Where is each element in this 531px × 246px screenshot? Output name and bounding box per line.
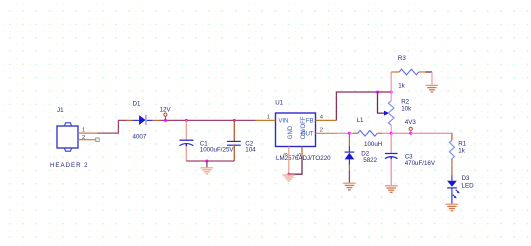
- svg-text:1k: 1k: [458, 148, 465, 155]
- junction at C2 tap: [233, 119, 236, 122]
- J1 pin 2: [78, 139, 95, 141]
- wire bottom rail C1-C2: [186, 160, 234, 162]
- capacitor C1: [180, 140, 194, 146]
- LED D3: [447, 165, 460, 204]
- wire R2 wiper: [378, 92, 385, 113]
- ground (D3): [446, 204, 459, 211]
- junction at R2 bottom / C3: [390, 132, 393, 135]
- svg-text:U1: U1: [275, 100, 283, 107]
- U1 pin 4: [316, 119, 337, 121]
- wire C2 bottom: [233, 145, 235, 161]
- U1 pin 5: [301, 147, 303, 157]
- svg-text:HEADER 2: HEADER 2: [50, 162, 89, 169]
- junction at U1 ground: [287, 173, 290, 176]
- svg-text:1: 1: [82, 128, 85, 134]
- svg-text:L1: L1: [357, 117, 364, 124]
- diode D2: [345, 133, 355, 171]
- svg-text:1: 1: [267, 115, 270, 121]
- svg-text:ON/OFF: ON/OFF: [301, 116, 307, 139]
- regulator U1: [276, 113, 316, 147]
- svg-text:FB: FB: [306, 118, 314, 124]
- wire R3 left vertical: [390, 72, 392, 92]
- wire C1 top: [185, 120, 187, 139]
- svg-text:R3: R3: [398, 55, 406, 62]
- svg-text:4007: 4007: [133, 134, 147, 141]
- power port 4V3: [409, 127, 412, 133]
- wire D1 cathode to U1 VIN (12V rail): [160, 119, 255, 121]
- wire C3 bottom to ground: [390, 159, 392, 185]
- svg-text:J1: J1: [57, 107, 64, 114]
- U1 pin 3: [288, 147, 290, 157]
- wire D2 junction to L1: [349, 132, 357, 134]
- junction at C1 tap: [185, 119, 188, 122]
- wire output rail to 4V3: [391, 132, 411, 134]
- svg-text:1k: 1k: [398, 83, 405, 90]
- junction at D2: [348, 132, 351, 135]
- svg-text:104: 104: [245, 147, 256, 154]
- junction at 12V tap: [164, 119, 167, 122]
- svg-text:VIN: VIN: [278, 118, 288, 124]
- wire U1 OUT rail: [337, 132, 349, 134]
- J1 pin 1: [78, 132, 98, 134]
- R2 wiper arrow: [384, 111, 389, 116]
- svg-text:4V3: 4V3: [405, 119, 417, 126]
- svg-text:GND: GND: [288, 125, 294, 139]
- wire J1 pin1 to D1: [98, 120, 127, 133]
- wire C1 bottom: [185, 146, 187, 161]
- junction FB / R3 / R2: [390, 91, 393, 94]
- svg-text:3: 3: [284, 153, 290, 156]
- ground (C3): [385, 186, 398, 193]
- no-connect marker on J1 pin 2: [96, 138, 99, 141]
- svg-text:5822: 5822: [363, 157, 377, 164]
- svg-text:2: 2: [320, 127, 323, 133]
- U1 pin 1: [256, 119, 276, 121]
- ground (U1): [283, 175, 296, 181]
- wire C3 top: [390, 133, 392, 153]
- wire R3 right to ground: [426, 71, 433, 73]
- connector J1: [57, 123, 78, 151]
- wire L1 to output node: [382, 132, 391, 134]
- svg-text:LED: LED: [462, 183, 475, 190]
- svg-text:D3: D3: [462, 175, 470, 182]
- U1 pin 2: [316, 132, 338, 134]
- wire U1 FB to feedback rail: [336, 92, 391, 120]
- wire C2 top: [233, 120, 235, 141]
- svg-text:470uF/16V: 470uF/16V: [405, 160, 436, 167]
- svg-text:2: 2: [82, 135, 85, 141]
- svg-text:10k: 10k: [401, 106, 412, 113]
- capacitor C3: [385, 154, 398, 160]
- inductor L1: [353, 131, 382, 137]
- resistor R2 (adjustable): [388, 92, 394, 133]
- wire U1 ON/OFF pin to ground: [289, 157, 302, 175]
- ground (D2): [343, 183, 356, 190]
- wire D2 anode to ground: [348, 171, 350, 183]
- ground (R3): [426, 85, 438, 92]
- junction at 4V3 tap: [409, 132, 412, 135]
- resistor R3: [391, 69, 425, 75]
- diode D1: [126, 115, 160, 125]
- resistor R1: [449, 133, 454, 165]
- svg-text:D1: D1: [133, 101, 141, 108]
- capacitor C2: [227, 141, 241, 145]
- power port 12V: [164, 113, 167, 120]
- junction at input ground: [205, 160, 208, 163]
- junction FB / wiper: [376, 91, 379, 94]
- wire output rail to R1: [411, 132, 452, 135]
- svg-text:5: 5: [297, 153, 303, 156]
- svg-text:100uH: 100uH: [364, 141, 382, 148]
- ground (input filter): [201, 161, 214, 174]
- svg-text:R1: R1: [458, 141, 466, 148]
- svg-text:1000uF/25V: 1000uF/25V: [200, 147, 235, 154]
- svg-text:12V: 12V: [160, 107, 172, 114]
- svg-text:R2: R2: [401, 98, 409, 105]
- wire U1 GND pin to ground: [288, 157, 290, 175]
